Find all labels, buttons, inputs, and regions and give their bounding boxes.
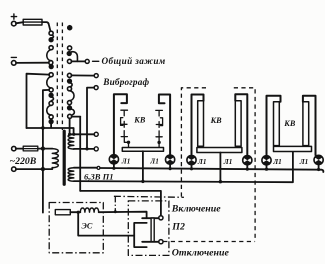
- junction dot: [41, 147, 45, 151]
- resistor R1: [55, 210, 70, 215]
- moving contact dot d2: [49, 65, 53, 69]
- svg-text:Отключение: Отключение: [172, 248, 230, 259]
- wire chain bottom down: [50, 123, 52, 128]
- contact spring arc d6-c10: [70, 83, 72, 87]
- svg-text:Л1: Л1: [149, 157, 159, 165]
- junction dot: [77, 211, 80, 214]
- junction dot chain bottom: [68, 133, 71, 136]
- inductor ES coil: [80, 208, 98, 212]
- plus input terminal: [12, 21, 17, 26]
- minus terminal sign: [11, 56, 16, 58]
- vibrator mechanical link dashed left: [56, 23, 58, 128]
- junction dot vibrograph elbow: [85, 147, 88, 150]
- tube V1a outer anode: [114, 94, 127, 154]
- connector circle on wire1: [97, 166, 100, 169]
- S1 terminal 2: [94, 147, 98, 151]
- svg-text:Общий зажим: Общий зажим: [102, 56, 166, 66]
- svg-text:КВ: КВ: [133, 116, 146, 125]
- junction dot: [41, 126, 45, 130]
- vibrograph terminal 2: [94, 86, 98, 90]
- minus input terminal: [12, 61, 17, 66]
- tube V1a grid T mark: [121, 110, 128, 116]
- tube V3a electrode bar: [274, 102, 280, 146]
- S1 terminal 1: [94, 132, 98, 136]
- busbar unit2: [197, 148, 242, 153]
- unit2 dashed box: [181, 88, 255, 242]
- vibrograph terminal 1: [94, 74, 98, 78]
- wire fuse F2 to primary: [38, 148, 53, 150]
- svg-text:Виброграф: Виброграф: [102, 77, 149, 87]
- lamp L1-3: [187, 155, 196, 170]
- tube V1a cathode dot: [127, 141, 130, 144]
- tube V2b outer anode: [235, 94, 247, 154]
- wire terminal 2 to primary bottom: [16, 168, 53, 169]
- wire relay feed horizontal: [80, 191, 161, 216]
- busbar unit1: [122, 148, 163, 152]
- wire1 continuation: [100, 168, 323, 172]
- tube V1a cathode lead: [124, 137, 128, 148]
- tube V1b cathode dot: [157, 141, 160, 144]
- junction dot winding top: [72, 133, 75, 136]
- tube V2b electrode bar: [235, 101, 241, 146]
- contact spring arc d3-c6: [51, 97, 53, 101]
- armature dot top: [68, 26, 72, 30]
- wire chain bottom horizontal: [27, 128, 74, 134]
- wire1 6.3V filament bus: [74, 167, 97, 169]
- moving contact dot d5: [67, 52, 71, 56]
- svg-text:КВ: КВ: [210, 116, 223, 125]
- wire minus terminal to chain: [16, 62, 49, 64]
- tube V3b electrode bar: [303, 102, 309, 146]
- svg-text:Л1: Л1: [223, 158, 233, 166]
- wire vertical A from contact c4: [27, 74, 50, 128]
- svg-text:Л1: Л1: [197, 158, 207, 166]
- tube V1b grid bracket: [160, 118, 162, 126]
- contact circle c8a: [68, 46, 72, 50]
- contact circle c7: [49, 115, 53, 119]
- wire vertical from chain stub down to relay wire: [79, 117, 81, 191]
- junction dot: [141, 180, 144, 183]
- dash-dot boundary line: [114, 196, 184, 197]
- connecting arc c6-c7: [47, 105, 51, 115]
- transformer T1 secondary winding S2 (6.3V): [68, 168, 74, 182]
- contact spring arc c1-d1: [51, 35, 53, 38]
- wire to common terminal: [71, 60, 85, 62]
- busbar unit2 lead to wire2: [219, 153, 221, 182]
- wire terminal to fuse F1: [16, 22, 23, 23]
- lamp L1-4: [243, 156, 252, 171]
- contact circle c3: [49, 61, 53, 65]
- contact circle c10: [67, 87, 71, 91]
- svg-text:КВ: КВ: [283, 119, 296, 128]
- ~220V terminal 2: [12, 167, 16, 171]
- contact spring hook d7-c12: [71, 109, 75, 115]
- wire vibrograph terminal 2 elbow down: [87, 88, 94, 149]
- tube V2a outer anode: [192, 95, 204, 155]
- moving contact dot d1: [49, 38, 53, 42]
- wire c12 stub right: [72, 116, 81, 118]
- transformer T1 primary winding: [52, 149, 58, 168]
- lamp L1-2: [166, 155, 175, 170]
- tube V1b outer anode: [159, 95, 170, 155]
- tube V1b grid cross: [156, 122, 162, 128]
- wire S1 top to terminal: [70, 133, 95, 135]
- svg-text:Включение: Включение: [171, 203, 221, 214]
- transformer T1 secondary winding S1: [68, 134, 74, 149]
- connecting arc c4-c5: [47, 77, 51, 88]
- connecting arc c10-c11: [70, 91, 74, 101]
- moving contact dot d7: [68, 106, 72, 110]
- svg-text:ЭС: ЭС: [82, 222, 93, 231]
- wire to vibrograph terminal 1: [71, 74, 94, 76]
- P2 contact off (Otklyuchenie): [159, 240, 163, 244]
- wire coil to P2 contact: [99, 212, 147, 219]
- vibrator mechanical link dashed right: [61, 23, 63, 131]
- vibrator left contact chain: [47, 31, 54, 123]
- svg-text:П2: П2: [171, 222, 185, 233]
- wire right chain bottom down: [69, 118, 71, 134]
- P2 yoke bracket: [134, 223, 147, 247]
- contact circle c6: [49, 101, 53, 105]
- wire P2 off contact dashed to unit2: [163, 241, 255, 243]
- lamp L1-6: [314, 155, 323, 171]
- moving contact dot d3: [49, 93, 53, 97]
- contact circle c2: [49, 46, 53, 50]
- wire S1 bottom to terminal: [74, 148, 95, 150]
- junction dot: [219, 180, 222, 183]
- tube V3a outer anode: [267, 96, 281, 155]
- lamp L1-5: [262, 156, 271, 171]
- svg-text:6,3В П1: 6,3В П1: [84, 171, 114, 181]
- spring hook d5 to common wire: [71, 52, 78, 62]
- fuse F2: [23, 146, 38, 151]
- P2 armature bars: [151, 218, 154, 242]
- wire branch to P2 lower: [78, 212, 134, 235]
- wire2 anode return bus: [74, 152, 293, 183]
- tube V3b outer anode: [303, 96, 316, 155]
- ES counter dash-dot box: [49, 203, 103, 253]
- tube V1a cathode mark: [121, 131, 127, 137]
- vibrator right contact chain: [67, 46, 77, 119]
- tube V1a grid cross: [121, 121, 127, 127]
- connecting arc c2-c3: [47, 50, 51, 61]
- moving contact dot d6: [68, 79, 72, 83]
- wire vertical B from contact c5: [43, 90, 49, 213]
- contact circle c12: [68, 114, 72, 118]
- P2 relay dash-dot box: [128, 201, 169, 256]
- svg-text:Л1: Л1: [272, 158, 282, 166]
- tube V1b cathode mark: [156, 131, 162, 137]
- P2 armature upper blade: [142, 217, 159, 219]
- tube V1b grid T mark: [156, 110, 163, 116]
- plus terminal sign: [11, 14, 16, 19]
- busbar unit1 lead to wire2: [142, 151, 144, 181]
- P2 contact on (Vklyuchenie): [159, 216, 163, 220]
- wire resistor to coil: [70, 211, 80, 213]
- transformer T1 core: [63, 131, 66, 184]
- contact circle c8: [67, 59, 71, 63]
- tube V2a electrode bar: [198, 101, 204, 146]
- common terminal (Obshchiy zazhim): [85, 59, 89, 63]
- contact circle c4: [49, 73, 53, 77]
- tube V1b cathode lead: [158, 137, 160, 148]
- lamp L1-1: [109, 155, 118, 170]
- svg-text:Л1: Л1: [121, 157, 131, 165]
- ~220V terminal 1: [12, 146, 16, 150]
- wire to fuse F2: [16, 148, 23, 150]
- P2 armature lower blade: [142, 241, 159, 243]
- contact circle c9: [67, 73, 71, 77]
- dash before label: [93, 60, 99, 62]
- contact circle c11: [67, 101, 71, 105]
- tube V1a grid bracket: [121, 118, 123, 126]
- dash-dot boundary drop: [114, 196, 116, 211]
- wire fuse to vibrator chain: [42, 22, 50, 31]
- contact circle c5: [49, 88, 53, 92]
- busbar unit3: [274, 146, 312, 151]
- contact circle c1: [49, 31, 53, 35]
- junction dot: [41, 167, 45, 171]
- junction dot: [114, 210, 117, 213]
- moving contact dot d4: [49, 120, 53, 124]
- svg-text:Л1: Л1: [299, 158, 309, 166]
- svg-text:~220В: ~220В: [10, 156, 37, 167]
- fuse F1: [23, 19, 42, 25]
